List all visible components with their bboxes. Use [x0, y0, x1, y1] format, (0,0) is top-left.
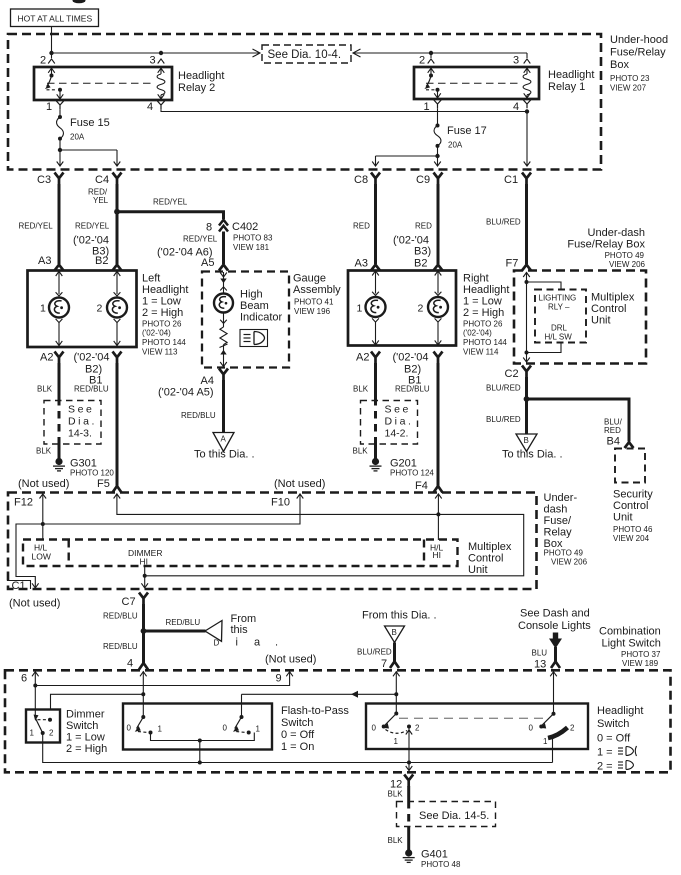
svg-text:1: 1	[357, 303, 363, 315]
svg-text:0: 0	[223, 724, 228, 733]
svg-text:B3): B3)	[414, 246, 431, 258]
svg-text:VIEW 189: VIEW 189	[622, 659, 659, 668]
wire 12 BLK to G401	[407, 786, 410, 801]
svg-text:Headlight: Headlight	[142, 284, 188, 296]
svg-text:Control: Control	[468, 553, 503, 565]
wire 6 to dimmer switch	[34, 671, 36, 717]
svg-text:RED/BLU: RED/BLU	[181, 411, 216, 420]
svg-text:RED/BLU: RED/BLU	[395, 385, 430, 394]
svg-text:RED/YEL: RED/YEL	[183, 235, 218, 244]
node junction at relay 2 pin 2	[49, 51, 53, 55]
svg-text:1 = Low: 1 = Low	[66, 732, 105, 744]
svg-text:4: 4	[127, 658, 133, 670]
svg-text:To this Dia. .: To this Dia. .	[194, 449, 255, 461]
svg-text:BLU/RED: BLU/RED	[357, 648, 392, 657]
wire headlight switch output to ground bus	[552, 735, 554, 763]
svg-text:(Not used): (Not used)	[274, 478, 325, 490]
wire RED/YEL branch to C402	[117, 212, 224, 219]
svg-text:Under-dash: Under-dash	[588, 227, 645, 239]
svg-text:Unit: Unit	[591, 315, 611, 327]
svg-text:C8: C8	[354, 174, 368, 186]
svg-text:4: 4	[513, 101, 519, 113]
svg-text:RED/BLU: RED/BLU	[103, 612, 138, 621]
svg-text:A5: A5	[201, 257, 214, 269]
svg-text:Dimmer: Dimmer	[66, 709, 105, 721]
svg-text:A2: A2	[356, 352, 369, 364]
svg-text:HOT AT ALL TIMES: HOT AT ALL TIMES	[18, 14, 93, 24]
HOT AT ALL TIMES box	[11, 9, 99, 27]
svg-text:A3: A3	[355, 258, 368, 270]
svg-text:1: 1	[40, 303, 46, 315]
high beam icon box	[240, 330, 268, 347]
relay 2 switch contact	[48, 68, 55, 73]
svg-text:Headlight: Headlight	[463, 284, 509, 296]
svg-text:BLK: BLK	[36, 447, 52, 456]
terminal 13 stem	[550, 672, 557, 677]
under-dash fuse/relay box (middle)	[8, 493, 537, 590]
svg-text:0: 0	[529, 724, 534, 733]
svg-text:2 = High: 2 = High	[66, 743, 107, 755]
svg-text:.: .	[275, 637, 278, 649]
svg-text:1: 1	[543, 737, 548, 746]
svg-text:G401: G401	[421, 849, 448, 861]
svg-text:BLK: BLK	[353, 385, 369, 394]
svg-text:4: 4	[147, 101, 153, 113]
wire fuse15 to C3 / C4	[59, 139, 61, 166]
ground G201	[370, 458, 382, 471]
svg-text:Unit: Unit	[613, 512, 633, 524]
svg-text:C402: C402	[232, 221, 258, 233]
wire A4 RED/BLU to triangle A	[222, 380, 225, 433]
wire F5 to multiplex H/L HI	[114, 494, 121, 499]
svg-text:A4: A4	[201, 375, 214, 387]
dimmer switch	[26, 710, 60, 743]
headlight switch right contact set	[552, 712, 556, 716]
svg-text:Left: Left	[142, 273, 160, 285]
wire C1 BLU/RED to F7	[525, 184, 528, 264]
svg-text:Multiplex: Multiplex	[591, 292, 635, 304]
headlight switch mechanical link (dashed)	[399, 717, 549, 719]
svg-text:Headlight: Headlight	[597, 705, 643, 717]
svg-text:1: 1	[30, 729, 35, 738]
svg-text:From this Dia. .: From this Dia. .	[362, 610, 437, 622]
svg-text:dash: dash	[544, 504, 568, 516]
svg-text:2 =: 2 =	[597, 761, 613, 773]
wire F12 to H/L LOW	[42, 494, 44, 541]
svg-text:RED: RED	[604, 426, 621, 435]
svg-text:2: 2	[40, 55, 46, 67]
svg-text:Headlight: Headlight	[548, 69, 594, 81]
svg-text:F4: F4	[415, 480, 428, 492]
svg-text:2: 2	[418, 303, 424, 315]
svg-text:H/L SW: H/L SW	[545, 333, 573, 342]
svg-text:PHOTO 26: PHOTO 26	[463, 320, 503, 329]
terminal 7 stem	[393, 672, 400, 677]
wire relay1 pin4 down to C1	[526, 112, 528, 166]
flash-to-pass left contact set	[141, 715, 145, 719]
svg-text:Fuse/Relay: Fuse/Relay	[610, 47, 666, 59]
wire A2 BLK to G201	[374, 363, 377, 398]
svg-text:HI: HI	[433, 550, 442, 560]
svg-text:0: 0	[372, 724, 377, 733]
svg-text:VIEW 206: VIEW 206	[551, 558, 588, 567]
svg-text:LOW: LOW	[32, 552, 51, 562]
svg-text:BLU: BLU	[532, 649, 548, 658]
svg-text:Multiplex: Multiplex	[468, 541, 512, 553]
See Dia. 14-5. box	[397, 802, 496, 827]
svg-text:8: 8	[206, 222, 212, 234]
svg-text:Switch: Switch	[281, 717, 313, 729]
wire A2 BLK to G301	[58, 363, 61, 398]
svg-text:2: 2	[415, 724, 420, 733]
svg-text:2: 2	[49, 729, 54, 738]
headlight switch icon for 1	[618, 746, 637, 756]
svg-text:13: 13	[534, 659, 546, 671]
wire fuse17 to C8 / C9	[437, 146, 439, 166]
svg-text:Beam: Beam	[240, 300, 269, 312]
svg-text:2: 2	[419, 55, 425, 67]
node junction on C2 wire	[524, 396, 530, 402]
svg-text:DRL: DRL	[551, 324, 568, 333]
svg-text:9: 9	[276, 673, 282, 685]
wire flash-to-pass to ground bus	[199, 741, 201, 763]
flash-to-pass switch	[123, 704, 272, 750]
svg-text:Console Lights: Console Lights	[518, 620, 591, 632]
gauge assembly box	[202, 272, 289, 368]
svg-text:VIEW 196: VIEW 196	[294, 307, 331, 316]
svg-text:VIEW 206: VIEW 206	[609, 260, 646, 269]
svg-text:High: High	[240, 289, 263, 301]
svg-text:Combination: Combination	[599, 626, 661, 638]
svg-text:Under-hood: Under-hood	[610, 34, 668, 46]
wire dimmer 2-contact to flash-to-pass	[51, 694, 144, 709]
svg-text:2 = High: 2 = High	[142, 307, 183, 319]
svg-text:B: B	[392, 628, 397, 637]
svg-text:3: 3	[513, 55, 519, 67]
svg-text:PHOTO 41: PHOTO 41	[294, 298, 334, 307]
svg-text:('02-'04): ('02-'04)	[463, 329, 492, 338]
node junction at relay 1 pin 2	[429, 51, 433, 55]
svg-text:1 = On: 1 = On	[281, 741, 314, 753]
svg-text:Switch: Switch	[597, 718, 629, 730]
svg-text:PHOTO 120: PHOTO 120	[70, 469, 114, 478]
svg-text:Fuse/Relay Box: Fuse/Relay Box	[567, 239, 645, 251]
svg-text:Fuse 17: Fuse 17	[447, 125, 487, 137]
svg-text:See Dia. 14-5.: See Dia. 14-5.	[419, 810, 489, 822]
terminal 4 stem	[140, 672, 147, 677]
See Dia. 14-3. box	[44, 401, 101, 445]
svg-text:1: 1	[424, 101, 430, 113]
svg-text:B2: B2	[414, 258, 427, 270]
svg-text:(Not used): (Not used)	[265, 654, 316, 666]
svg-text:PHOTO 124: PHOTO 124	[390, 469, 434, 478]
wire to See Dia. 10-4.	[52, 52, 260, 54]
svg-text:Security: Security	[613, 489, 653, 501]
svg-text:BLK: BLK	[37, 385, 53, 394]
svg-text:A3: A3	[38, 255, 51, 267]
relay 2 coil	[158, 68, 165, 73]
svg-text:C2: C2	[505, 368, 519, 380]
svg-text:20A: 20A	[70, 133, 85, 142]
wire DIMMER HI to C7	[144, 566, 146, 588]
svg-text:RED/YEL: RED/YEL	[19, 222, 54, 231]
wire from HOT AT ALL TIMES to relay 2 pin 2	[51, 27, 53, 59]
svg-text:Dia.: Dia.	[385, 416, 414, 428]
headlight switch icon for 2	[618, 761, 634, 770]
svg-text:3: 3	[150, 55, 156, 67]
svg-text:14-3.: 14-3.	[68, 428, 92, 440]
svg-text:Flash-to-Pass: Flash-to-Pass	[281, 705, 349, 717]
svg-text:VIEW 204: VIEW 204	[613, 534, 650, 543]
svg-text:0: 0	[127, 724, 132, 733]
flash-to-pass link wire	[151, 733, 255, 741]
svg-text:A: A	[221, 435, 227, 444]
wire BLU to terminal 13	[554, 647, 557, 664]
svg-text:PHOTO 23: PHOTO 23	[610, 74, 650, 83]
node junction on C7 wire	[141, 628, 147, 634]
svg-text:PHOTO 83: PHOTO 83	[233, 234, 273, 243]
svg-text:RED/BLU: RED/BLU	[166, 618, 201, 627]
svg-text:PHOTO 46: PHOTO 46	[613, 525, 653, 534]
See Dia. 14-2. box	[361, 401, 418, 445]
svg-text:BLU/RED: BLU/RED	[486, 384, 521, 393]
svg-text:('02-'04: ('02-'04	[74, 352, 110, 364]
svg-text:('02-'04 A5): ('02-'04 A5)	[158, 387, 214, 399]
fuse F15	[59, 109, 61, 117]
node junction F4/F5	[436, 512, 440, 516]
svg-text:VIEW 113: VIEW 113	[142, 348, 178, 357]
left headlight box	[28, 271, 137, 348]
svg-text:F10: F10	[271, 497, 290, 509]
svg-text:LIGHTING: LIGHTING	[539, 294, 577, 303]
security control unit box	[615, 449, 645, 483]
wire B1 RED/BLU to F4	[437, 363, 440, 488]
ground G301	[53, 458, 65, 471]
svg-text:RED/YEL: RED/YEL	[75, 222, 110, 231]
combination light switch box	[5, 670, 671, 772]
svg-text:RED/BLU: RED/BLU	[74, 385, 109, 394]
svg-text:C9: C9	[416, 174, 430, 186]
svg-text:1: 1	[46, 101, 52, 113]
node junction at relay 2 pin 3	[159, 51, 163, 55]
svg-text:('02-'04: ('02-'04	[393, 352, 429, 364]
svg-text:VIEW 181: VIEW 181	[233, 243, 270, 252]
svg-text:2 = High: 2 = High	[463, 307, 504, 319]
svg-text:6: 6	[21, 673, 27, 685]
svg-text:YEL: YEL	[93, 196, 109, 205]
svg-text:See: See	[68, 404, 94, 416]
resistor below indicator lamp	[220, 320, 227, 324]
off-page triangle A	[213, 433, 234, 452]
svg-text:A2: A2	[40, 352, 53, 364]
svg-text:1 = Low: 1 = Low	[463, 296, 502, 308]
svg-text:PHOTO 144: PHOTO 144	[142, 338, 186, 347]
svg-text:14-2.: 14-2.	[385, 428, 409, 440]
svg-text:Relay 1: Relay 1	[548, 81, 585, 93]
svg-text:a: a	[254, 637, 261, 649]
svg-text:('02-'04): ('02-'04)	[142, 329, 171, 338]
wire dimmer output to ground bus	[43, 733, 553, 763]
wire BLU/RED branch to B4	[527, 399, 630, 441]
wire headlight switch 2-contact to ground bus	[408, 727, 410, 763]
svg-text:Relay: Relay	[544, 527, 573, 539]
svg-text:VIEW 207: VIEW 207	[610, 84, 647, 93]
svg-text:Under-: Under-	[544, 492, 578, 504]
svg-text:See Dia. 10-4.: See Dia. 10-4.	[268, 49, 342, 61]
svg-text:PHOTO 37: PHOTO 37	[621, 650, 661, 659]
headlight relay 1 U2	[414, 67, 539, 99]
svg-text:B2: B2	[95, 255, 108, 267]
svg-text:Gauge: Gauge	[293, 273, 326, 285]
wire ground bus to terminal 12	[408, 763, 410, 771]
svg-text:0 = Off: 0 = Off	[597, 733, 631, 745]
svg-text:1: 1	[158, 725, 163, 734]
svg-text:RED/YEL: RED/YEL	[153, 198, 188, 207]
svg-text:7: 7	[381, 658, 387, 670]
svg-text:i: i	[236, 637, 238, 649]
svg-text:(Not used): (Not used)	[9, 598, 60, 610]
headlight relay 2 U1	[34, 67, 172, 100]
wire C8 RED to right headlight A3	[374, 184, 377, 264]
svg-text:PHOTO 49: PHOTO 49	[544, 549, 584, 558]
svg-text:BLK: BLK	[388, 790, 404, 799]
wire C9 RED to right headlight B2	[437, 184, 440, 264]
svg-text:RED: RED	[415, 222, 432, 231]
See Dia. 10-4. box	[262, 45, 351, 63]
wire from See Dia. 10-4. to relay 1	[353, 49, 361, 57]
wire triangle B BLU/RED to terminal 7	[393, 643, 396, 664]
svg-text:PHOTO 48: PHOTO 48	[421, 860, 461, 869]
svg-text:C1: C1	[504, 174, 518, 186]
off-page triangle D (from this dia)	[205, 621, 222, 642]
wire C3 RED/YEL to left headlight A3	[58, 184, 61, 264]
headlight switch left contact set	[394, 712, 398, 716]
svg-text:RLY –: RLY –	[548, 303, 570, 312]
node junction on C4 wire	[114, 209, 120, 215]
svg-text:C3: C3	[37, 174, 51, 186]
svg-text:1 = Low: 1 = Low	[142, 296, 181, 308]
wire relay2 pin4 to relay1 pin4	[161, 109, 527, 111]
svg-text:HI: HI	[140, 557, 149, 567]
wire 6-junction to terminal 9	[35, 671, 289, 685]
wire flash-to-pass to terminal 7 stem	[242, 693, 397, 695]
svg-text:BLK: BLK	[353, 447, 369, 456]
svg-text:D: D	[214, 639, 220, 648]
svg-text:Right: Right	[463, 273, 489, 285]
svg-text:Control: Control	[591, 303, 626, 315]
right headlight box	[348, 271, 456, 346]
svg-text:Control: Control	[613, 500, 648, 512]
svg-text:Assembly: Assembly	[293, 284, 341, 296]
svg-text:BLU/RED: BLU/RED	[486, 218, 521, 227]
svg-text:RED: RED	[353, 222, 370, 231]
multiplex control unit internal dashed box	[23, 540, 458, 567]
svg-text:F12: F12	[14, 497, 33, 509]
svg-text:1: 1	[256, 725, 261, 734]
svg-text:2: 2	[97, 303, 103, 315]
under-hood fuse/relay box (dashed)	[8, 34, 601, 170]
wire C7 RED/BLU down	[142, 604, 145, 664]
cropped heading glyph	[73, 0, 86, 3]
wire F7 to lighting rly	[523, 272, 530, 277]
svg-text:See Dash and: See Dash and	[520, 608, 590, 620]
svg-text:Relay 2: Relay 2	[178, 82, 215, 94]
svg-text:this: this	[231, 624, 249, 636]
svg-text:See: See	[385, 404, 411, 416]
svg-text:0 = Off: 0 = Off	[281, 729, 315, 741]
svg-text:PHOTO 49: PHOTO 49	[605, 251, 645, 260]
ground G401	[403, 849, 415, 862]
svg-text:(Not used): (Not used)	[18, 478, 69, 490]
svg-text:F7: F7	[506, 258, 519, 270]
svg-text:C4: C4	[95, 174, 109, 186]
headlight switch	[366, 704, 588, 750]
svg-text:Headlight: Headlight	[178, 70, 224, 82]
svg-text:C1: C1	[12, 580, 26, 592]
fuse F17	[437, 108, 439, 125]
svg-text:PHOTO 144: PHOTO 144	[463, 338, 507, 347]
svg-text:Dia.: Dia.	[68, 416, 97, 428]
connector C1 (not used) cavity	[7, 581, 31, 590]
svg-text:1: 1	[394, 737, 399, 746]
svg-text:F5: F5	[97, 478, 110, 490]
svg-text:BLU/RED: BLU/RED	[486, 415, 521, 424]
svg-text:RED/BLU: RED/BLU	[103, 642, 138, 651]
svg-text:Unit: Unit	[468, 564, 488, 576]
svg-text:VIEW 114: VIEW 114	[463, 348, 499, 357]
svg-text:20A: 20A	[448, 141, 463, 150]
svg-text:To this Dia. .: To this Dia. .	[502, 449, 563, 461]
svg-text:Indicator: Indicator	[240, 312, 283, 324]
under-dash fuse/relay box (right)	[514, 271, 646, 364]
svg-text:B: B	[524, 436, 529, 445]
svg-text:C7: C7	[122, 596, 136, 608]
wire F10 to F12 junction and C1	[16, 494, 300, 588]
flash-to-pass right contact set	[241, 694, 243, 717]
wire RED/BLU branch to triangle D	[144, 630, 206, 633]
wire B1 RED/BLU to F5	[116, 363, 119, 488]
svg-text:BLK: BLK	[388, 836, 404, 845]
svg-text:PHOTO 26: PHOTO 26	[142, 320, 182, 329]
high beam indicator lamp	[220, 273, 227, 278]
svg-text:Box: Box	[610, 59, 629, 71]
lighting rly / drl h/l sw box	[535, 290, 586, 343]
node junction relay1 pin4	[525, 109, 529, 113]
off-page triangle B (to this dia)	[516, 434, 537, 452]
svg-text:B4: B4	[607, 436, 620, 448]
svg-text:Switch: Switch	[66, 720, 98, 732]
wire C2 BLU/RED down	[525, 377, 528, 434]
wire C402 to A5	[222, 232, 225, 265]
relay 1 switch contact	[428, 68, 435, 73]
wire C4 RED/YEL down	[116, 184, 119, 264]
relay 1 coil	[524, 68, 531, 73]
svg-text:Light Switch: Light Switch	[602, 638, 661, 650]
svg-text:Fuse 15: Fuse 15	[70, 117, 110, 129]
svg-text:2: 2	[570, 724, 575, 733]
relay 2 mechanical link (dashed)	[47, 82, 155, 84]
wire F4 to H/L HI	[435, 494, 442, 499]
svg-text:Fuse/: Fuse/	[544, 515, 572, 527]
relay 1 mechanical link (dashed)	[426, 82, 521, 84]
svg-text:1 =: 1 =	[597, 747, 613, 759]
